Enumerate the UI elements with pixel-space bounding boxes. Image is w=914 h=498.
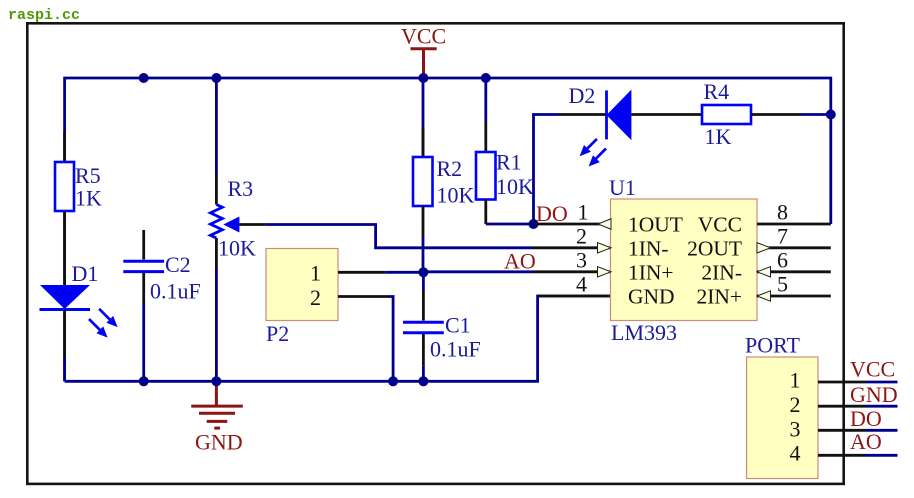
svg-text:P2: P2 [266,321,289,346]
U1 pin4 lead [538,295,611,298]
U1 pin1 lead [534,223,612,226]
capacitor C2 [123,230,200,381]
junction bottom rail GND [211,376,221,386]
svg-text:R3: R3 [228,176,254,201]
svg-text:AO: AO [850,429,882,454]
svg-text:D1: D1 [72,261,99,286]
resistor R5 [55,132,102,285]
svg-text:R1: R1 [496,150,522,175]
svg-text:2IN+: 2IN+ [696,284,742,308]
svg-text:1OUT: 1OUT [628,212,683,236]
svg-text:10K: 10K [218,236,256,261]
svg-text:VCC: VCC [850,357,895,382]
PORT pin1 lead [818,381,866,384]
junction AO node [418,267,428,277]
svg-text:C2: C2 [165,252,191,277]
junction top rail C2 [139,73,149,83]
svg-text:VCC: VCC [698,212,742,236]
svg-text:C1: C1 [445,313,471,338]
wire top rail [65,78,831,381]
svg-text:3: 3 [790,416,801,441]
svg-text:1IN-: 1IN- [628,236,669,260]
svg-text:1: 1 [578,200,589,225]
svg-text:GND: GND [850,382,898,407]
svg-text:VCC: VCC [401,24,446,49]
PORT pin2 lead [818,405,866,408]
svg-text:R4: R4 [704,79,730,104]
svg-text:8: 8 [777,200,788,225]
LED D2 [559,83,703,167]
svg-text:1: 1 [790,368,801,393]
wire P2 pin1 to AO node [386,271,424,274]
svg-text:raspi.cc: raspi.cc [8,7,80,24]
capacitor C1 [403,272,481,381]
svg-text:5: 5 [777,272,788,297]
U1 pin2 lead [534,246,612,249]
wire P2 pin2 to bottom rail [388,297,393,382]
svg-text:10K: 10K [496,174,534,199]
svg-text:GND: GND [628,284,675,308]
U1 pin3 input arrow [598,267,612,277]
wire AO to U1 pin3 [423,270,533,273]
potentiometer R3 [210,78,256,381]
svg-text:1: 1 [310,261,321,286]
svg-text:4: 4 [576,272,587,297]
resistor R4 [702,79,831,149]
svg-text:2OUT: 2OUT [687,236,742,260]
P2 pin2 lead [338,295,388,298]
junction top rail VCC/R2 [418,73,428,83]
P2 pin1 lead [338,271,386,274]
U1 pin7 output arrow [757,243,771,253]
U1 pin3 lead [534,270,612,273]
svg-text:R2: R2 [437,156,463,181]
U1 pin5 lead [757,295,831,298]
svg-text:PORT: PORT [745,332,800,357]
wire wiper to U1 pin2 [266,225,534,248]
resistor R1 [476,78,534,224]
wire R1 to DO node [486,223,534,226]
junction top rail R3 [211,73,221,83]
svg-text:DO: DO [850,406,882,431]
U1 pin7 lead [757,246,831,249]
svg-text:0.1uF: 0.1uF [150,279,201,304]
svg-text:DO: DO [536,201,568,226]
U1 pin6 lead [757,270,831,273]
svg-text:R5: R5 [75,163,101,188]
svg-text:10K: 10K [437,183,475,208]
junction top rail R1 [481,73,491,83]
U1 pin2 input arrow [598,243,612,253]
svg-text:D2: D2 [569,83,596,108]
svg-text:0.1uF: 0.1uF [430,337,481,362]
junction bottom rail P2 pin2 [388,376,398,386]
svg-text:2: 2 [310,285,321,310]
svg-text:1K: 1K [705,124,732,149]
U1 pin1 output arrow [598,219,611,229]
svg-text:AO: AO [504,249,536,274]
U1 pin6 input arrow [757,267,771,277]
PORT pin3 lead [818,429,866,432]
wire bottom rail [65,296,611,381]
svg-text:4: 4 [790,441,801,466]
junction bottom rail C2 [139,376,149,386]
wire R4 node down to U1 pin8 [829,115,832,225]
wire net VCC stub [866,381,898,384]
connector P2 [266,249,338,347]
VCC power symbol [401,24,446,79]
junction R4 / top rail [826,110,836,120]
wire net DO stub [866,429,898,432]
R3 wiper arrow [223,217,265,233]
PORT pin4 lead [818,454,866,457]
U1 pin5 input arrow [757,291,771,301]
wire DO node vertical to D2 [534,115,559,225]
wire net AO stub [866,454,898,457]
svg-text:GND: GND [195,430,243,455]
ground symbol GND [191,382,243,455]
junction bottom rail C1 [418,376,428,386]
LED D1 [40,261,118,381]
svg-text:U1: U1 [609,175,636,200]
junction DO node [529,219,539,229]
resistor R2 [413,78,475,272]
svg-text:1K: 1K [75,186,102,211]
svg-text:1IN+: 1IN+ [628,260,674,284]
svg-text:2: 2 [576,224,587,249]
svg-text:3: 3 [576,248,587,273]
svg-text:LM393: LM393 [611,320,677,345]
svg-text:6: 6 [777,248,788,273]
svg-text:7: 7 [777,224,788,249]
connector PORT body [745,332,818,478]
wire net GND stub [866,405,898,408]
op-amp U1 body [609,175,757,345]
svg-text:2IN-: 2IN- [701,260,742,284]
svg-text:2: 2 [790,392,801,417]
U1 pin8 lead [757,223,831,226]
